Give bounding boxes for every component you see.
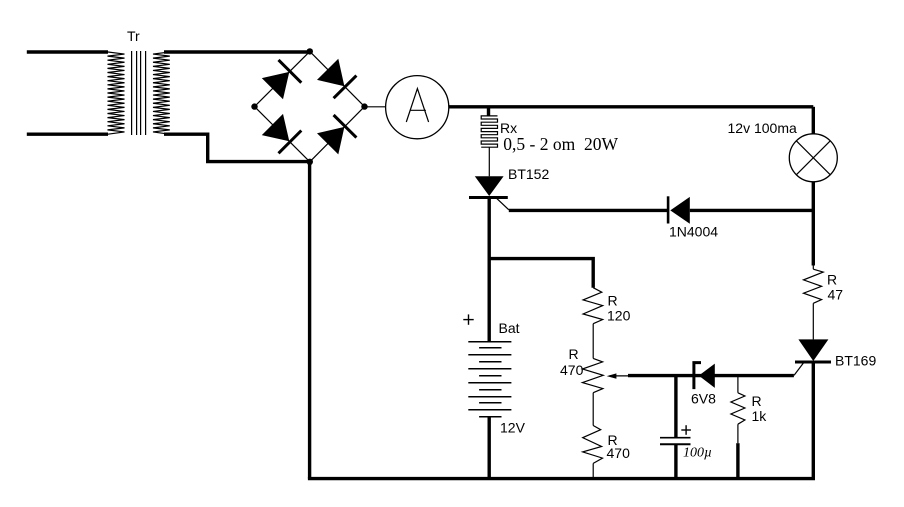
svg-text:470: 470 (607, 445, 631, 461)
wire wiper thin segment (610, 375, 629, 377)
wire ammeter to lamp (top rail) (449, 105, 814, 108)
svg-text:1N4004: 1N4004 (669, 224, 718, 240)
wiper arrow (607, 373, 617, 378)
svg-text:12V: 12V (500, 420, 526, 436)
wire bottom rail (308, 477, 815, 480)
wire BT169 cathode to bottom rail (812, 362, 815, 479)
svg-text:R: R (569, 346, 579, 362)
svg-text:47: 47 (828, 287, 844, 303)
node right of bridge (361, 103, 367, 109)
svg-text:Bat: Bat (499, 320, 520, 336)
resistor R1k (731, 376, 767, 479)
svg-text:R: R (827, 272, 837, 288)
svg-text:R: R (608, 292, 618, 308)
zener diode 6V8 (691, 363, 716, 407)
transformer Tr (108, 28, 170, 135)
wire bridge arm bottom-left (255, 107, 310, 162)
resistor R47 (804, 266, 844, 340)
capacitor C1 100u (660, 376, 712, 479)
diode D3 bridge bottom-left (262, 114, 302, 153)
diode 1N4004 (668, 196, 718, 239)
wire battery bottom to rail (488, 417, 491, 479)
wire BT152 gate to diode (509, 209, 668, 212)
node top of bridge (307, 48, 313, 54)
svg-text:0,5 - 2 om 20W: 0,5 - 2 om 20W (503, 134, 618, 154)
node bottom of bridge (307, 159, 313, 165)
wire bridge to ammeter (365, 106, 386, 108)
node left of bridge (251, 103, 257, 109)
diode D1 bridge top-left (262, 60, 302, 99)
svg-text:100µ: 100µ (683, 446, 712, 461)
wire bridge arm top-left (255, 51, 310, 106)
diode D4 bridge bottom-right (317, 115, 356, 154)
wire lamp down to R47 (812, 182, 815, 266)
wire BT152 cathode down to battery (488, 198, 491, 342)
lamp 12v 100ma (728, 120, 838, 182)
svg-text:Tr: Tr (127, 28, 140, 44)
ammeter A (386, 76, 449, 139)
wire primary bottom lead (27, 132, 108, 135)
resistor R120 (583, 288, 630, 359)
thyristor BT169 (794, 339, 876, 375)
wire primary top lead (27, 50, 108, 53)
wire bridge bottom down left side (308, 162, 311, 479)
wire secondary top to bridge (164, 50, 310, 53)
wire gate rail to BT169 (628, 374, 794, 377)
svg-text:BT152: BT152 (508, 166, 549, 182)
svg-text:1k: 1k (752, 408, 768, 424)
wire bridge arm top-right (310, 51, 365, 106)
wire bridge arm bottom-right (310, 107, 365, 162)
wire branch to divider (489, 259, 593, 288)
resistor Rx (481, 107, 517, 177)
svg-text:BT169: BT169 (835, 353, 876, 369)
wire top rail down to lamp (812, 107, 815, 134)
svg-text:6V8: 6V8 (691, 390, 716, 406)
svg-text:12v 100ma: 12v 100ma (728, 120, 797, 136)
resistor R470 bottom (583, 426, 630, 478)
potentiometer R470 (560, 346, 603, 426)
svg-text:120: 120 (607, 308, 631, 324)
battery Bat 12V (463, 314, 525, 435)
thyristor BT152 (469, 166, 549, 210)
wire secondary bottom step to bridge (164, 134, 310, 161)
svg-text:470: 470 (560, 362, 584, 378)
wire diode to lamp branch (690, 209, 815, 212)
diode D2 bridge top-right (317, 59, 356, 98)
svg-text:R: R (752, 393, 762, 409)
